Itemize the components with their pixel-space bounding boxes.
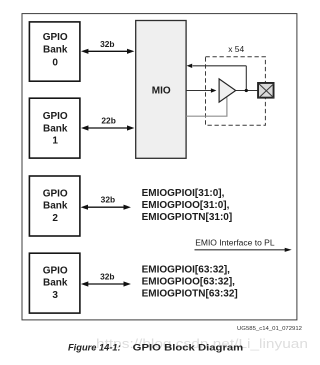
svg-text:32b: 32b [101,194,115,204]
svg-text:EMIOGPIOTN[63:32]: EMIOGPIOTN[63:32] [142,288,238,299]
svg-text:2: 2 [52,213,58,224]
svg-text:32b: 32b [100,272,114,282]
svg-text:EMIOGPIOO[63:32],: EMIOGPIOO[63:32], [142,276,236,287]
svg-text:x 54: x 54 [228,44,244,54]
svg-text:EMIOGPIOI[31:0],: EMIOGPIOI[31:0], [142,188,225,199]
svg-text:EMIOGPIOI[63:32],: EMIOGPIOI[63:32], [142,264,231,275]
svg-text:22b: 22b [101,116,115,126]
svg-text:Bank: Bank [43,45,68,56]
svg-text:Bank: Bank [43,278,68,289]
svg-text:MIO: MIO [152,86,171,97]
svg-text:Bank: Bank [43,123,68,134]
svg-text:3: 3 [52,290,58,301]
svg-text:GPIO: GPIO [43,188,68,199]
svg-text:EMIOGPIOO[31:0],: EMIOGPIOO[31:0], [142,200,230,211]
svg-text:GPIO: GPIO [43,265,68,276]
svg-text:GPIO: GPIO [43,32,68,43]
svg-text:UG585_c14_01_072912: UG585_c14_01_072912 [237,326,302,332]
svg-text:0: 0 [52,58,58,69]
svg-text:GPIO: GPIO [43,111,68,122]
svg-text:1: 1 [52,136,58,147]
svg-text:EMIOGPIOTN[31:0]: EMIOGPIOTN[31:0] [142,212,233,223]
svg-text:32b: 32b [100,39,114,49]
svg-text:Figure 14-1:: Figure 14-1: [68,343,121,353]
svg-text:Bank: Bank [43,201,68,212]
svg-text:GPIO Block Diagram: GPIO Block Diagram [133,343,244,353]
svg-text:EMIO Interface to PL: EMIO Interface to PL [195,238,275,248]
